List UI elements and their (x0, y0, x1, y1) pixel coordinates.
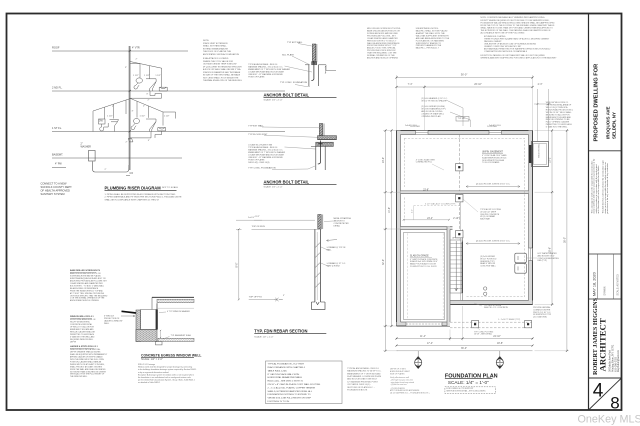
anchor bolt detail 2: J-bolt (318, 141, 321, 164)
svg-text:WHERE A MASONRY IS APPROVED FO: WHERE A MASONRY IS APPROVED FOR DIRECT A… (481, 57, 558, 60)
grade line 4in PW (52, 167, 66, 169)
svg-text:VIRGIN SOIL & BE FULL HEIGHT: VIRGIN SOIL & BE FULL HEIGHT OR STEP (268, 398, 312, 400)
title block section lines (589, 150, 622, 152)
sheet number box 4 of 8 (589, 378, 622, 410)
foundation outer walls (397, 131, 533, 135)
right bump-out dims (537, 89, 539, 142)
svg-text:PLUMBING RISER DIAGRAM: PLUMBING RISER DIAGRAM (105, 185, 162, 190)
svg-text:EMBEDMENT OF 7" WITH NUT & WAS: EMBEDMENT OF 7" WITH NUT & WASHER (248, 151, 285, 154)
rebar section: vertical rebar marks (315, 243, 320, 248)
svg-text:NOT LESS THAN 1 FOOT INSIDE TH: NOT LESS THAN 1 FOOT INSIDE THE (203, 76, 239, 79)
svg-text:THE WINDOW WELL: THE WINDOW WELL (70, 376, 87, 378)
svg-text:(3) 1/2 DIA PREM. B.C. - FOUND: (3) 1/2 DIA PREM. B.C. - FOUNDATION BOLT… (390, 392, 430, 395)
svg-text:TYP. CONC. FOUNDATION: TYP. CONC. FOUNDATION (248, 167, 276, 170)
svg-text:2-8 SLIDER: 2-8 SLIDER (410, 126, 421, 128)
svg-text:4'-0": 4'-0" (411, 209, 413, 213)
svg-text:4 1/2": 4 1/2" (255, 216, 260, 218)
svg-text:AND BOLT AT LEAST ONE BOLT: AND BOLT AT LEAST ONE BOLT (347, 378, 378, 381)
svg-text:DETAIL: DETAIL (334, 225, 340, 228)
window opening right wall (529, 248, 533, 261)
svg-text:2": 2" (126, 141, 128, 143)
svg-text:ONE BOLT - 12" MAXIMUM & FROM: ONE BOLT - 12" MAXIMUM & FROM MID (248, 156, 283, 159)
svg-text:EACH WAY: EACH WAY (480, 218, 491, 221)
svg-text:3 1/2" DIA LALLY COLUMN (TYP): 3 1/2" DIA LALLY COLUMN (TYP) (425, 203, 456, 206)
anchor bolt detail 1: wall stud (312, 44, 315, 62)
svg-text:Exception: A drainage system f: Exception: A drainage system for window … (138, 373, 194, 376)
svg-text:MAXIMUM SPACING 72" AT 6FT O.C: MAXIMUM SPACING 72" AT 6FT O.C. (347, 370, 382, 373)
svg-text:R404.1.2(1) - SEE DWG 1 NOTE #: R404.1.2(1) - SEE DWG 1 NOTE #6 (268, 381, 304, 383)
svg-text:WINDOW WELL: WINDOW WELL (539, 142, 541, 158)
svg-text:BASEMT.: BASEMT. (52, 153, 63, 157)
garage top wall (401, 227, 453, 230)
svg-text:2'-10": 2'-10" (453, 218, 459, 220)
svg-text:MAY 18, 2020: MAY 18, 2020 (592, 272, 596, 296)
svg-text:B: B (499, 359, 501, 363)
svg-text:1. PIPING SHALL BE SUPPORTED: 1. PIPING SHALL BE SUPPORTED IN ACCORDAN… (105, 193, 177, 196)
porch dashed edge line (450, 321, 532, 323)
joist direction arrows (466, 186, 520, 188)
anchor bolt detail 2: wall stud (319, 124, 322, 136)
2nd floor vent header (130, 62, 162, 88)
garage east wall / stair wall (447, 227, 450, 326)
svg-text:3": 3" (132, 110, 134, 112)
svg-text:EMBEDMENT OF 7" WITH NUT AND: EMBEDMENT OF 7" WITH NUT AND (347, 372, 381, 375)
top dimension line 36ft (397, 77, 533, 79)
svg-text:14'-8": 14'-8" (388, 207, 391, 213)
svg-text:2 ND FL.: 2 ND FL. (52, 86, 63, 90)
svg-text:2 - 2 x 4 ACQ SILL PLATES, COP: 2 - 2 x 4 ACQ SILL PLATES, COPPER TERMIT… (268, 386, 316, 389)
svg-text:WASHER: WASHER (81, 146, 92, 149)
girder line with lally piers (458, 135, 460, 191)
svg-text:1 1/2": 1 1/2" (155, 75, 161, 77)
garage door opening (406, 322, 442, 325)
washer drain drop (93, 162, 130, 173)
rebar section: left dimension line (238, 229, 240, 299)
svg-text:SANITARY SYSTEM: SANITARY SYSTEM (41, 192, 65, 196)
window well: window in wall (141, 310, 158, 330)
svg-text:DRAWN: DRAWN (604, 286, 607, 295)
svg-text:to the buildings foundation dr: to the buildings foundation drainage sys… (138, 368, 196, 371)
svg-text:TYP. BASEMENT SLAB: TYP. BASEMENT SLAB (171, 334, 192, 337)
svg-text:3": 3" (146, 94, 148, 96)
section marker B (499, 351, 501, 356)
2nd floor lavatory (134, 78, 142, 89)
svg-text:WALL: WALL (327, 249, 332, 252)
window well: gravel base (block) (136, 330, 157, 342)
svg-text:TABLE R404.1.2(8): TABLE R404.1.2(8) (268, 369, 287, 372)
svg-text:LOCATE MIN PLATE AND BOLT AT L: LOCATE MIN PLATE AND BOLT AT LEAST (248, 71, 285, 74)
svg-text:8'-0": 8'-0" (236, 262, 239, 267)
svg-text:2": 2" (105, 169, 107, 171)
svg-text:SHALL BE IN COMPLIANCE WITH CH: SHALL BE IN COMPLIANCE WITH CHAPTERS 25 … (105, 198, 160, 201)
svg-text:POINT OF PLATES: POINT OF PLATES (248, 76, 265, 79)
top dimension line second tier (397, 86, 533, 88)
svg-text:ANCHOR AND MUSCLE OPENING: ANCHOR AND MUSCLE OPENING (70, 299, 99, 302)
bottom dimension lines (397, 338, 533, 340)
svg-text:TYPICAL ANCHORAGE - R403.1.6: TYPICAL ANCHORAGE - R403.1.6 (347, 367, 379, 370)
svg-text:10'-2": 10'-2" (549, 157, 552, 163)
svg-text:PROPOSED DWELLING FOR: PROPOSED DWELLING FOR (593, 64, 599, 142)
svg-text:procedures or for any act or o: procedures or for any act or omission of… (606, 163, 609, 214)
rebar section: top of ftg line (249, 299, 274, 301)
svg-text:CONC FDN WALL: CONC FDN WALL (480, 265, 496, 268)
svg-text:2'-3": 2'-3" (538, 83, 543, 86)
anchor bolt detail 2: floor sheathing and joist band (318, 136, 337, 140)
svg-text:3000 PSI - P.C. CONCRETE: 3000 PSI - P.C. CONCRETE (484, 307, 509, 309)
svg-text:PAD (TYP): PAD (TYP) (538, 259, 548, 262)
svg-text:and corrections will not be re: and corrections will not be responsible … (597, 165, 600, 214)
svg-text:2": 2" (148, 100, 150, 102)
svg-text:FLAT WASHER. LOCATE MIN PLATE: FLAT WASHER. LOCATE MIN PLATE (347, 375, 382, 378)
svg-text:SCALE: 1/4" = 1'-0": SCALE: 1/4" = 1'-0" (448, 380, 489, 385)
1st floor water closet funnel (146, 119, 156, 132)
svg-text:OPENING PER PLAN: OPENING PER PLAN (421, 115, 441, 118)
svg-text:1 1/2": 1 1/2" (164, 115, 170, 117)
svg-text:SCALE: 1/2" = 1'-0": SCALE: 1/2" = 1'-0" (264, 99, 283, 102)
1st floor drain piping (130, 132, 151, 138)
svg-text:or by an approved alternative: or by an approved alternative method (138, 371, 169, 374)
svg-text:8: 8 (610, 394, 619, 413)
svg-text:2": 2" (136, 58, 138, 60)
svg-text:Window wells shall be designed: Window wells shall be designed for prope… (138, 366, 192, 369)
svg-text:24'-2": 24'-2" (427, 218, 433, 220)
stair with treads (450, 240, 463, 293)
2nd floor drain piping (130, 91, 162, 98)
svg-text:TOP OF FDN: TOP OF FDN (252, 226, 266, 228)
svg-text:ANCHOR AND MUSCLE OPENING: ANCHOR AND MUSCLE OPENING (367, 57, 398, 60)
rebar section: top of fdn line (252, 228, 320, 230)
svg-text:OneKey MLS: OneKey MLS (578, 414, 640, 426)
svg-text:the foundation is on well-drai: the foundation is on well-drained soil o… (138, 376, 191, 379)
section marker A (417, 351, 419, 356)
svg-text:R310.2.3.1 Drainage: R310.2.3.1 Drainage (138, 363, 155, 366)
svg-text:SEE FDN NOTES DETAIL - SHT 5 (: SEE FDN NOTES DETAIL - SHT 5 (INCLUSIVE) (446, 390, 485, 393)
svg-text:OF HEALTH APPROVED: OF HEALTH APPROVED (41, 188, 70, 192)
svg-text:4" PW: 4" PW (55, 163, 62, 166)
anchor bolt detail 1: J-bolt (311, 61, 314, 80)
svg-text:26'-10": 26'-10" (474, 83, 482, 86)
svg-text:BASE DRILLED SCREW BOLTS: BASE DRILLED SCREW BOLTS (70, 269, 101, 272)
svg-text:38'-0": 38'-0" (564, 237, 567, 243)
rebar section: 1st floor line (236, 219, 315, 221)
svg-text:THERMAL ENVELOPE OF THE BUILDI: THERMAL ENVELOPE OF THE BUILDING (203, 79, 242, 82)
svg-text:(2) 2x10 FLOOR JOISTS @ 16" O.: (2) 2x10 FLOOR JOISTS @ 16" O.C. (476, 241, 511, 243)
svg-text:32'-6": 32'-6" (382, 259, 385, 265)
svg-text:SELDEN, NY: SELDEN, NY (612, 112, 617, 139)
svg-text:3": 3" (283, 295, 285, 297)
svg-text:2": 2" (143, 105, 145, 107)
svg-text:UP: UP (452, 238, 456, 240)
svg-text:1 1/2": 1 1/2" (144, 75, 150, 77)
svg-text:2% MIN PITCH TO O.H. DOOR: 2% MIN PITCH TO O.H. DOOR (410, 266, 437, 268)
svg-text:SLAB ON GRADE: SLAB ON GRADE (410, 254, 429, 257)
main soil stack (128, 46, 130, 170)
svg-text:BACKFILL - PER R404.1.7: BACKFILL - PER R404.1.7 (416, 47, 439, 50)
svg-text:20'-6": 20'-6" (382, 157, 385, 163)
svg-text:ANTICIPATED SNOW ACCUMULATION: ANTICIPATED SNOW ACCUMULATION (203, 53, 240, 56)
pier footings on girder (456, 164, 463, 171)
svg-text:SECTIONS OF PLATES B.C. -: SECTIONS OF PLATES B.C. - (347, 386, 375, 389)
svg-text:R403.1.6(1) - R403.1.6(3): R403.1.6(1) - R403.1.6(3) (248, 162, 269, 164)
svg-text:DEPTH: DEPTH (70, 341, 77, 343)
svg-text:16"x8" - SEE DETAIL: 16"x8" - SEE DETAIL (474, 333, 492, 336)
porch footing piers at bottom (472, 321, 479, 328)
svg-text:IN ACCORDANCE WITH CHAPTER 4: IN ACCORDANCE WITH CHAPTER 4 (268, 366, 306, 369)
window openings in walls (416, 131, 429, 135)
floor line BASEMT (52, 157, 182, 159)
svg-text:IROQUOIS AVE: IROQUOIS AVE (606, 106, 611, 139)
svg-text:SCALE: AS NOTED: SCALE: AS NOTED (617, 274, 620, 296)
dimension extension lines top (396, 75, 398, 131)
svg-text:SCALE: 1/2" = 1'-0": SCALE: 1/2" = 1'-0" (254, 335, 273, 338)
svg-text:2. PIPING MATERIALS AND FITTI: 2. PIPING MATERIALS AND FITTINGS PER SEC… (105, 196, 183, 199)
rebar section: foundation wall (314, 229, 316, 302)
svg-text:3": 3" (148, 140, 150, 142)
svg-text:STACKS IN DIAMETER. ANY IN: STACKS IN DIAMETER. ANY INCREASE (203, 71, 241, 74)
kitchen sink trap (100, 123, 108, 131)
svg-text:SHIELD, EXTERIOR DAMP-PROOFING: SHIELD, EXTERIOR DAMP-PROOFING. ALL (268, 390, 313, 393)
svg-text:36'-0": 36'-0" (461, 73, 468, 77)
svg-text:SIDE OF PLATES: SIDE OF PLATES (390, 372, 405, 375)
1st floor toilet (158, 128, 166, 131)
svg-text:CONNECT TO A NEW: CONNECT TO A NEW (41, 182, 67, 186)
svg-text:THE ROOF OF 6" ABOVE THE: THE ROOF OF 6" ABOVE THE (203, 50, 232, 53)
svg-text:6" MAX INTO THE WELL: 6" MAX INTO THE WELL (546, 126, 569, 129)
anchor bolt detail 2: sill plate (316, 142, 334, 146)
rebar section: footing (312, 302, 326, 309)
rebar section: rim joist and wall above fdn (318, 215, 321, 230)
window well bump-out on right wall (532, 142, 549, 167)
svg-text:SCALE: 1/4" = 1'-0": SCALE: 1/4" = 1'-0" (141, 358, 163, 361)
right dimension lines (551, 131, 553, 305)
garage inner room outline (404, 233, 445, 320)
svg-text:2-8 SLIDER: 2-8 SLIDER (487, 126, 498, 128)
1st floor double sink (131, 118, 139, 129)
svg-text:TYP EXT WALL: TYP EXT WALL (287, 41, 303, 44)
stair east wall (462, 229, 464, 300)
window well: basement slab hatched (158, 338, 194, 341)
svg-text:0F (-18C) VENT EXTENSIONS THR: 0F (-18C) VENT EXTENSIONS THROUGH (203, 66, 242, 68)
svg-text:SCALE: 1/2" = 1'-0": SCALE: 1/2" = 1'-0" (264, 186, 283, 189)
svg-text:LADDER & STEPS R310.2.3.1: LADDER & STEPS R310.2.3.1 (70, 345, 99, 348)
svg-text:NOTE: CONCRETE MECHANICALLY VI: NOTE: CONCRETE MECHANICALLY VIBRATED PER… (481, 16, 546, 19)
drawing reference box (445, 387, 496, 394)
title block divider (588, 14, 590, 411)
svg-text:Rayckbuh@aol.com: Rayckbuh@aol.com (617, 349, 620, 372)
anchor bolt detail 2: foundation wall (315, 146, 317, 170)
svg-text:UNFIN. BASEMENT: UNFIN. BASEMENT (482, 150, 504, 153)
svg-text:1 1/2": 1 1/2" (140, 115, 146, 117)
svg-text:OUTSIDE DESIGN TEMP IS BELOW: OUTSIDE DESIGN TEMP IS BELOW (203, 64, 236, 66)
interior bearing wall (401, 191, 529, 194)
dishwasher box DW (99, 119, 106, 124)
svg-text:8" CAST-IN-PLACE WALL WITH: 8" CAST-IN-PLACE WALL WITH (268, 373, 300, 376)
svg-text:4" VTR: 4" VTR (132, 47, 140, 50)
svg-text:TO FLOOR DRAINS: TO FLOOR DRAINS (482, 161, 500, 164)
svg-text:TYPICAL FOUNDATION - 8'-0" HIG: TYPICAL FOUNDATION - 8'-0" HIGH (268, 363, 305, 366)
svg-text:18'-6": 18'-6" (549, 247, 552, 253)
svg-text:23'-8": 23'-8" (423, 189, 429, 191)
floor line ROOF (52, 50, 188, 52)
svg-text:1 1/2": 1 1/2" (107, 115, 113, 117)
svg-text:SILL PLATE: SILL PLATE (282, 53, 294, 56)
svg-text:ACCORDANCE WITH ONE OF THE FOL: ACCORDANCE WITH ONE OF THE FOLLOWING: (481, 31, 526, 34)
anchor bolt detail 1: foundation wall (308, 65, 310, 86)
window well: floor band over wall (152, 296, 194, 298)
svg-text:WHERE THE 97.5% VALUE FOR: WHERE THE 97.5% VALUE FOR (203, 60, 233, 63)
svg-text:36'-0": 36'-0" (461, 347, 467, 350)
svg-text:MAXIMUM SPACING - 72in at 6ft-: MAXIMUM SPACING - 72in at 6ft-0in O.C. (248, 66, 283, 69)
svg-text:3": 3" (125, 67, 127, 69)
svg-text:(4 LOCATIONS): (4 LOCATIONS) (533, 316, 547, 319)
svg-text:NOTE:: NOTE: (203, 40, 210, 42)
typical foundation spec box (266, 361, 343, 404)
svg-text:SUFFOLK COUNTY DEPT.: SUFFOLK COUNTY DEPT. (41, 185, 73, 189)
svg-text:W/ 1/2" PLYWOOD SPACER: W/ 1/2" PLYWOOD SPACER (421, 100, 447, 103)
svg-text:EXTEND MINIMUM ABOVE: EXTEND MINIMUM ABOVE (203, 47, 229, 50)
2nd floor water closet funnel (146, 79, 156, 91)
1st floor vent header (93, 99, 176, 119)
svg-text:NOT TO SCALE: NOT TO SCALE (162, 186, 178, 189)
svg-text:SHALL NOT PASS SHALL: SHALL NOT PASS SHALL (203, 45, 228, 48)
svg-text:FOUNDATION BOLTS: FOUNDATION BOLTS (347, 389, 368, 392)
svg-text:11'-4": 11'-4" (420, 335, 426, 338)
svg-text:per the United Soil Classifica: per the United Soil Classification Syste… (138, 379, 195, 382)
svg-text:CO: CO (130, 172, 134, 175)
svg-text:as detailed in Table R405.1: as detailed in Table R405.1 (138, 381, 160, 384)
svg-text:WELL: WELL (104, 323, 109, 325)
footing projection dashed line inside walls (404, 138, 524, 296)
svg-text:WINDOW WELL R310.2.1: WINDOW WELL R310.2.1 (70, 316, 95, 318)
svg-text:4: 4 (593, 381, 604, 402)
svg-text:TYP. FDN REBAR SECTION: TYP. FDN REBAR SECTION (254, 328, 307, 333)
svg-text:HORIZONTAL REBAR PER TABLE: HORIZONTAL REBAR PER TABLE (268, 376, 303, 379)
svg-text:1 1/2": 1 1/2" (133, 75, 139, 77)
svg-text:ON 16" x 8" CAST-IN-PLACE CONT: ON 16" x 8" CAST-IN-PLACE CONT. WALL FOO… (268, 383, 321, 386)
svg-text:STACK VENT EXTENSION: STACK VENT EXTENSION (203, 42, 228, 45)
svg-text:A: A (417, 359, 419, 363)
svg-text:TYP. CONC. FOUNDATION: TYP. CONC. FOUNDATION (280, 81, 308, 84)
stack wye fitting (128, 139, 133, 142)
svg-text:OF PLATES. R403.1.6(1) -: OF PLATES. R403.1.6(1) - (347, 383, 371, 386)
svg-text:TYPICAL ANCHORAGE - R403.1.6: TYPICAL ANCHORAGE - R403.1.6 (248, 146, 277, 149)
svg-text:17'-4": 17'-4" (427, 342, 433, 345)
svg-text:ROOF: ROOF (52, 46, 60, 50)
svg-text:IN SIZE OF THE VENT SHALL BE M: IN SIZE OF THE VENT SHALL BE MADE (203, 74, 241, 77)
svg-text:OTHER APPROVED METHODS OR MATE: OTHER APPROVED METHODS OR MATERIALS (484, 50, 528, 53)
svg-text:CONCRETE EGRESS WINDOW WELL: CONCRETE EGRESS WINDOW WELL (141, 353, 201, 357)
window well: well wall (block) (136, 310, 141, 342)
svg-text:FOOTINGS 1V TO 2H: FOOTINGS 1V TO 2H (268, 401, 290, 403)
svg-text:(2) 2x10 FLOOR JOISTS @ 16" O.: (2) 2x10 FLOOR JOISTS @ 16" O.C. (476, 184, 511, 186)
svg-text:- (4) bolt for max turn: - (4) bolt for max turn (390, 383, 407, 386)
svg-text:4' TYP WINDOW HEADER: 4' TYP WINDOW HEADER (167, 310, 190, 313)
svg-text:ANCHOR BOLT DETAIL: ANCHOR BOLT DETAIL (264, 179, 310, 184)
svg-text:TYP FLOOR JOIST: TYP FLOOR JOIST (248, 134, 268, 136)
2nd floor toilet (159, 87, 167, 91)
window well: footing under wall (156, 342, 163, 345)
svg-text:1 - 2x10 PT BEAM (TYP): 1 - 2x10 PT BEAM (TYP) (498, 318, 521, 321)
svg-text:TOP OF FTG: TOP OF FTG (249, 297, 262, 299)
svg-text:IF AN ATTACK IS LOCATED: IF AN ATTACK IS LOCATED (203, 57, 229, 60)
left outer dimension line (385, 131, 387, 351)
svg-text:A ROOF OR WALL SHALL BE MIN 3": A ROOF OR WALL SHALL BE MIN 3" DIA (203, 68, 241, 71)
svg-text:COMPACTED FILL: COMPACTED FILL (416, 161, 432, 164)
svg-text:FOUNDATION FOOTINGS TO EXTEND: FOUNDATION FOOTINGS TO EXTEND TO (268, 393, 311, 396)
svg-text:18'-8": 18'-8" (497, 342, 503, 345)
anchor bolt detail 1: sill plate (312, 62, 317, 65)
hot water heater and boiler (515, 253, 527, 263)
svg-text:12" MAXIMUM FROM MID POINT: 12" MAXIMUM FROM MID POINT (347, 380, 378, 383)
svg-text:TYP SILL: TYP SILL (458, 118, 466, 120)
1st floor lavatory funnel (110, 120, 119, 132)
left second tier dim (391, 131, 393, 327)
window well: grade line (bold) (122, 311, 137, 313)
floor line 2ND FL (52, 90, 285, 92)
svg-text:2": 2" (112, 106, 114, 108)
window well: small dim ticks (160, 331, 162, 338)
washer standpipe box (89, 151, 96, 162)
svg-text:1 ST FL.: 1 ST FL. (52, 126, 62, 130)
svg-text:ANCHOR BOLT DETAIL: ANCHOR BOLT DETAIL (264, 92, 310, 97)
svg-text:ARCHITECT: ARCHITECT (598, 318, 608, 371)
svg-text:7'-4": 7'-4" (408, 83, 413, 86)
floor line 1ST FL (52, 131, 285, 133)
lally columns (circles) (484, 287, 487, 290)
svg-text:22'-10": 22'-10" (493, 335, 501, 338)
